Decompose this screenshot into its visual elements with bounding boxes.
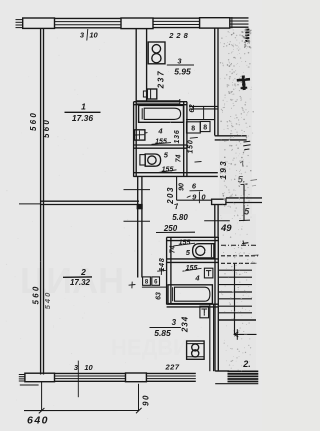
window W2 (kitchen 1, top) — [153, 18, 200, 27]
svg-text:560: 560 — [31, 285, 40, 305]
wall: hall1 top (kitchen door side) — [190, 105, 218, 107]
fixture: sink kitchen1 — [147, 89, 157, 99]
svg-text:5.: 5. — [238, 175, 246, 185]
line under room6 — [190, 190, 204, 192]
svg-text:560: 560 — [42, 118, 51, 138]
fixture: WC toilet2 — [193, 244, 214, 258]
stair tread dashed 1 — [221, 255, 258, 257]
fixture: WC toilet1 — [140, 155, 145, 165]
svg-text:193: 193 — [218, 159, 228, 179]
svg-text:10: 10 — [84, 363, 93, 372]
svg-text:234: 234 — [180, 316, 189, 333]
wall: bottom pier — [126, 373, 147, 382]
svg-text:5.85: 5.85 — [154, 328, 171, 338]
svg-text:227: 227 — [164, 363, 179, 372]
mark: arrow dash under 150 — [195, 161, 202, 164]
wall: toilet2/bath2 divider — [167, 258, 219, 260]
stair direction arrow — [234, 333, 257, 335]
line: below-block baseline — [215, 383, 258, 385]
dim 640 extension right — [138, 384, 140, 411]
wall: kitchen1 bottom — [136, 100, 180, 102]
svg-text:2: 2 — [80, 267, 86, 277]
wall: bath1/toilet1 divider — [134, 144, 187, 146]
wall: bottom dark block (adjacent) — [228, 371, 259, 381]
door: apartment1 entrance block — [212, 199, 226, 204]
mark: cross B left of wall — [129, 284, 136, 287]
svg-text:136: 136 — [174, 129, 181, 143]
window W3 (adjacent unit, top) — [230, 17, 249, 28]
wall: vestibule box bottom line — [177, 199, 218, 201]
mark: cross A near 148 — [157, 269, 166, 272]
wall: stair landing top — [215, 135, 247, 137]
svg-text:63: 63 — [155, 292, 162, 300]
door line room2 — [124, 220, 151, 222]
wall: toilet2 top — [167, 236, 219, 238]
svg-text:3: 3 — [172, 318, 177, 327]
label: fraction line room 2 — [63, 276, 92, 278]
stair mid rail line — [234, 263, 236, 334]
svg-text:237: 237 — [157, 70, 166, 90]
svg-text:90: 90 — [142, 394, 151, 406]
fixture: radiator T2 — [200, 306, 209, 318]
texture: photocopy speckle noise — [6, 29, 254, 421]
wall: left exterior (double line) — [40, 28, 42, 374]
stair tread dashed 2 — [221, 262, 256, 264]
svg-text:90: 90 — [178, 183, 185, 191]
svg-text:250: 250 — [163, 224, 178, 233]
svg-text:540: 540 — [43, 291, 52, 310]
svg-text:150: 150 — [188, 139, 195, 153]
fixture: bathtub 2 — [168, 285, 212, 304]
wall: vestibule box left line — [176, 177, 178, 201]
wall: stair landing bottom — [226, 197, 262, 199]
svg-text:4: 4 — [157, 127, 163, 136]
wall: kitchen2 right inner (double) — [209, 304, 211, 371]
window W5 (kitchen 2, bottom) — [146, 373, 195, 381]
wall: top exterior, left end block — [23, 18, 55, 28]
wall: bath1/toilet1 right — [183, 102, 185, 177]
svg-text:8: 8 — [203, 124, 207, 131]
line: left stub below wall — [20, 384, 39, 386]
mark: faucet tick at basin — [145, 132, 148, 134]
wall: top pier between W1 and W2 — [121, 18, 153, 29]
vent shaft line hall1 — [186, 119, 214, 121]
wall: room1/room2 divider — [41, 200, 139, 202]
label: fraction line kitchen2 — [150, 327, 181, 329]
stair bottom flight line — [219, 319, 256, 321]
wall: bottom left end block — [25, 373, 55, 382]
label: fraction line room 1 — [65, 111, 101, 113]
wall: sanitary block left — [166, 237, 168, 304]
svg-text:17.32: 17.32 — [70, 278, 91, 287]
fixture: stove kitchen1 — [148, 42, 165, 64]
underline 250 — [156, 231, 195, 233]
dimension line crossing landing wall — [243, 184, 245, 221]
wall: right exterior upper (apartment 1) — [214, 28, 216, 135]
window W1 (room 1, top) — [55, 18, 122, 27]
svg-text:148: 148 — [159, 257, 166, 271]
wall: bottom, left hatch marks — [19, 375, 25, 382]
dim 640 extension left — [41, 382, 43, 411]
dimension tick left of divider — [19, 203, 41, 205]
wall: stair left / kitchen2 right — [214, 237, 216, 371]
mark: dark cross artifact top right — [237, 79, 250, 80]
svg-text:62: 62 — [187, 104, 196, 113]
wall: bath2 bottom — [167, 303, 219, 305]
stair flight boundary (dash-dot) — [221, 244, 258, 246]
svg-text:49: 49 — [220, 223, 232, 234]
svg-text:4: 4 — [194, 273, 200, 282]
wall: right exterior lower (apartment 2 entry) — [214, 205, 216, 238]
svg-text:НЕДВИ: НЕДВИ — [111, 335, 189, 360]
vent shaft boxes hall1 — [187, 122, 201, 133]
svg-text:10: 10 — [89, 31, 98, 40]
line right of 5.80 — [204, 220, 230, 222]
dim 640 line — [24, 410, 139, 412]
mark: handwritten 1 near stairs — [242, 242, 248, 245]
mark: junction block on corridor wall — [137, 204, 142, 209]
wall: bath1 top — [134, 101, 187, 103]
mark: speck cluster below W3 — [245, 30, 249, 42]
svg-text:1: 1 — [81, 101, 86, 111]
svg-text:155: 155 — [179, 240, 191, 247]
texture: photocopy gray band (stair shaft) — [219, 29, 252, 214]
fixture: bathtub 1 — [139, 105, 184, 122]
svg-text:560: 560 — [29, 111, 38, 131]
mark: wall-break dashes at landing top — [244, 140, 251, 143]
mark: dash right of stairs — [252, 254, 259, 257]
wall: top exterior, left hatch marks — [16, 20, 23, 28]
svg-text:8: 8 — [191, 125, 195, 132]
wall: corridor1 top (toilet1 bottom) — [134, 172, 218, 174]
fixture: radiator T1 — [204, 268, 213, 278]
fixture: stove kitchen2 — [187, 341, 205, 359]
svg-text:5.95: 5.95 — [174, 67, 191, 77]
wall: bath1 left inner line — [133, 102, 135, 177]
label: fraction line kitchen1 — [167, 64, 194, 66]
svg-text:228: 228 — [168, 31, 191, 40]
wall: room1/kitchen1 (thick, double line) — [135, 29, 137, 177]
svg-text:5.80: 5.80 — [172, 213, 188, 222]
vent boxes lobby2 — [143, 277, 151, 285]
svg-text:74: 74 — [175, 155, 182, 163]
stair treads — [219, 270, 252, 313]
svg-text:2.: 2. — [242, 359, 251, 369]
wall: corridor2/rooms (double line) — [137, 177, 139, 278]
line: stairwall-to-block connector — [215, 370, 229, 372]
svg-text:74: 74 — [169, 246, 176, 254]
svg-text:17.36: 17.36 — [72, 113, 94, 123]
wall: top pier between W2 and W3 — [200, 18, 230, 28]
window W4 (room 2, bottom) — [55, 373, 126, 381]
door line room1 — [124, 189, 151, 191]
fixture: washbasin bath1 — [134, 130, 145, 140]
